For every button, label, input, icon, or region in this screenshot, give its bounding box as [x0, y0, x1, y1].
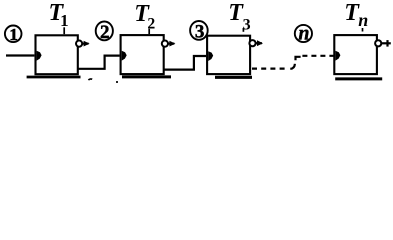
wire : clock input to T1 [6, 54, 34, 56]
output stub + arrowhead T1 [82, 42, 88, 44]
svg-text:1: 1 [9, 25, 18, 44]
subscript tail tick T2 [148, 29, 150, 34]
output end tick Tn [386, 40, 388, 47]
svg-text:3: 3 [195, 22, 205, 43]
svg-text:n: n [298, 22, 309, 44]
clock wedge Tn [335, 51, 340, 61]
flip-flop T2 box [121, 35, 164, 74]
underline segment 4 (below Tn) [335, 77, 382, 80]
svg-text:1: 1 [60, 11, 69, 30]
node 2 : circled stage number 2 [96, 22, 113, 43]
subscript tail tick T1 [63, 27, 65, 34]
inversion bubble T1 [76, 41, 82, 47]
node 3 : circled stage number 3 [190, 21, 208, 43]
wire T3 to Tn riser hook dash [290, 64, 295, 69]
output stub + arrowhead T3 [256, 42, 262, 44]
clock wedge T2 [122, 51, 127, 61]
output stub + arrowhead T2 [168, 42, 174, 44]
output stub Tn [381, 42, 391, 44]
wire T3 to Tn riser corner dash [296, 57, 301, 61]
node 1 : circled stage number 1 [5, 25, 22, 44]
underline segment 2 (below T2) [122, 75, 171, 78]
inversion bubble T3 [249, 40, 255, 46]
svg-text:2: 2 [100, 22, 110, 43]
wire T2 to T3 (staircase) [164, 56, 206, 70]
wire T3 to Tn lower dashed segment [252, 67, 285, 69]
underline segment 3 (below T3) [215, 76, 252, 79]
stray speck dot [116, 81, 118, 83]
node n : circled stage number n [295, 22, 312, 44]
flip-flop T1 box [36, 35, 78, 74]
subscript tail tick T3 [242, 28, 244, 32]
inversion bubble Tn [375, 40, 381, 46]
inversion bubble T2 [162, 41, 168, 47]
wire T3 to Tn upper dashed segment [302, 55, 333, 57]
clock wedge T1 [37, 51, 42, 61]
subscript tail tick Tn [362, 28, 364, 32]
flip-flop T3 box [207, 36, 250, 74]
stray speck hook [88, 79, 92, 80]
clock wedge T3 [208, 51, 213, 61]
underline segment 1 (below T1) [27, 76, 81, 79]
wire T1 to T2 (staircase) [78, 56, 120, 69]
flip-flop Tn box [334, 35, 377, 74]
svg-text:n: n [358, 10, 368, 30]
